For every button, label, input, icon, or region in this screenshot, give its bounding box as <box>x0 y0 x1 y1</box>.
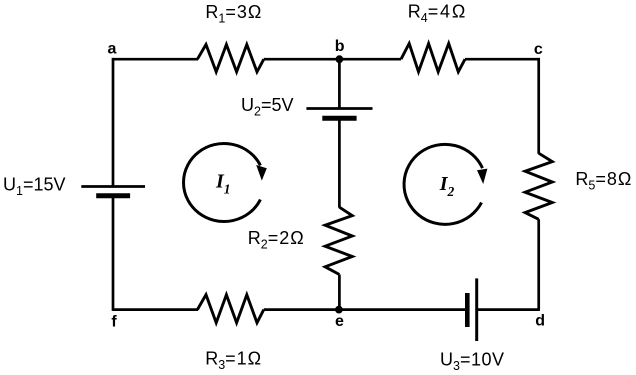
svg-text:R5=8Ω: R5=8Ω <box>575 169 632 193</box>
wire: right vertical R5 to d <box>537 219 540 311</box>
battery U1 long plate <box>81 185 145 188</box>
wire: right vertical c to R5 <box>537 58 540 154</box>
svg-text:U3=10V: U3=10V <box>440 350 505 374</box>
resistor R1 <box>197 45 263 72</box>
loop arrow I2 arc <box>404 144 482 224</box>
svg-text:R2=2Ω: R2=2Ω <box>248 228 305 252</box>
svg-text:e: e <box>335 313 344 330</box>
wire: bottom segment U3 to d <box>477 308 539 311</box>
svg-text:f: f <box>111 314 117 331</box>
wire: top-left segment a to R1 <box>113 58 198 61</box>
svg-text:U2=5V: U2=5V <box>241 95 293 119</box>
svg-text:d: d <box>535 312 545 329</box>
wire: middle vertical R2 to e <box>338 275 341 310</box>
svg-text:R1=3Ω: R1=3Ω <box>205 2 262 26</box>
svg-text:R3=1Ω: R3=1Ω <box>205 348 262 372</box>
loop arrow I2 arrowhead <box>477 169 487 184</box>
node e junction dot <box>335 306 343 314</box>
wire: left vertical U1 to f <box>112 196 115 311</box>
wire: top segment R4 to c <box>465 58 539 61</box>
battery U2 long plate <box>306 107 372 110</box>
wire: top segment R1 to b <box>264 58 340 61</box>
svg-text:U1=15V: U1=15V <box>3 174 66 198</box>
svg-text:b: b <box>335 38 345 55</box>
svg-text:R4=4Ω: R4=4Ω <box>408 1 467 25</box>
battery U3 long plate <box>475 278 478 341</box>
battery U2 short plate <box>322 116 356 121</box>
battery U3 short plate <box>465 293 470 327</box>
loop arrow I1 arc <box>184 144 261 222</box>
resistor R4 <box>401 44 465 72</box>
wire: left vertical a to U1 <box>112 58 115 187</box>
wire: top segment b to R4 <box>339 58 401 61</box>
resistor R5 <box>525 153 552 219</box>
resistor R2 <box>325 207 352 274</box>
resistor R3 <box>197 295 263 323</box>
wire: bottom segment R3 to U3 <box>264 308 468 311</box>
wire: middle vertical b to U2 <box>338 59 341 108</box>
battery U1 short plate <box>96 193 130 198</box>
svg-text:c: c <box>534 41 543 58</box>
wire: middle vertical U2 to R2 <box>338 118 341 208</box>
svg-text:a: a <box>108 41 117 58</box>
wire: bottom segment f to R3 <box>113 308 198 311</box>
loop arrow I1 arrowhead <box>256 165 267 181</box>
node b junction dot <box>336 55 344 63</box>
